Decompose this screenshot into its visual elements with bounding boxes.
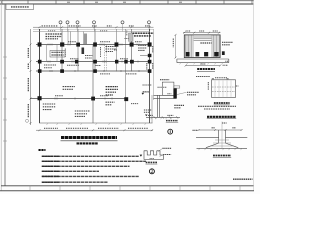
detail D top dim line — [183, 32, 221, 34]
haunch heading — [207, 116, 236, 118]
detail D right wall hatch — [212, 35, 220, 58]
left dim ticks — [30, 44, 32, 125]
title box text — [11, 6, 29, 8]
L-detail column rect — [162, 82, 174, 95]
right note text lines — [198, 106, 236, 109]
step detail level triangle — [140, 155, 143, 157]
right dim line — [153, 29, 155, 100]
L-detail caption — [166, 120, 178, 122]
bottom right sheet text — [233, 178, 253, 180]
haunch slopes — [206, 143, 219, 148]
haunch dim 600 left — [212, 127, 216, 129]
plan top edge wall — [33, 31, 150, 33]
detail D bottom black squares — [186, 52, 219, 56]
frame right faint line — [253, 0, 255, 191]
step detail callout 2 — [163, 154, 171, 156]
plan vertical grid x=93 lower — [92, 45, 94, 124]
dim texts below beam C — [100, 73, 137, 75]
L-detail bottom hatch — [151, 117, 173, 119]
keynote box text — [52, 51, 64, 53]
column right y=55.5 — [148, 54, 152, 57]
frame top inner line — [0, 3, 254, 5]
circled number 1 — [168, 129, 173, 134]
plan text below beam D center — [106, 102, 115, 105]
frame bottom inner line — [1, 185, 254, 187]
plan vertical grid x=149.5 — [149, 29, 151, 123]
L-detail bottom level text — [145, 115, 148, 117]
step detail callout 1 — [162, 147, 171, 149]
beam elevation right text — [236, 85, 239, 87]
beam labels above beam A — [68, 41, 142, 43]
top dimension ticks — [39, 26, 151, 28]
beam line A y=44.5 — [36, 44, 150, 46]
haunch dim line — [199, 129, 242, 131]
detail D top dim ticks — [183, 32, 220, 34]
axis bubble 6 — [148, 21, 151, 24]
label above beam elevation — [196, 76, 210, 78]
L-detail left verticals — [157, 95, 159, 117]
circled number 2 — [149, 169, 154, 174]
note line 1 — [42, 155, 139, 157]
top secondary dim line — [33, 29, 154, 31]
detail D caption — [197, 68, 215, 70]
beam elevation top dim text — [215, 77, 227, 79]
L-detail right text — [174, 105, 184, 107]
step detail caption — [146, 161, 157, 163]
detail D square outside right wall — [222, 51, 225, 55]
dark bar mid bay — [82, 48, 85, 55]
detail D inner text — [200, 42, 211, 44]
frame bottom outer line — [0, 190, 254, 192]
stirrup ticks on beams — [48, 44, 139, 100]
note line 3 — [42, 165, 130, 167]
secondary dim numbers — [48, 30, 108, 32]
partition top-left x=83.5 — [83, 32, 85, 45]
beam line D y=98.5 — [30, 98, 127, 100]
top strip cell marks — [67, 1, 182, 3]
L-detail level mark top — [142, 93, 145, 95]
sheet background — [0, 0, 260, 194]
haunch center vertical — [221, 122, 223, 149]
plan caption line 1 — [61, 136, 117, 139]
plan text lower-left room — [63, 87, 75, 90]
mid-left bay vertical text — [64, 49, 66, 58]
text under beam B — [96, 65, 102, 67]
bottom dim line — [36, 129, 153, 131]
haunch left text — [193, 129, 198, 131]
beam elevation stirrups — [215, 81, 231, 97]
plan vertical grid x=62 — [61, 29, 63, 72]
plan vertical grid x=68 — [67, 29, 69, 45]
axis bubble 2 — [66, 21, 69, 24]
top dimension line — [33, 26, 154, 28]
notes header — [39, 149, 46, 151]
columns row C — [38, 69, 152, 73]
haunch caption — [213, 155, 231, 157]
columns row A — [38, 42, 152, 46]
plan right small hatched room — [129, 33, 134, 41]
step detail small text under shape — [150, 158, 155, 160]
note line 4 — [42, 170, 99, 172]
frame left inner line — [4, 4, 6, 186]
detail beam elevation label above — [160, 79, 169, 81]
plan text block upper-right dark — [133, 33, 154, 36]
L-detail mid text — [167, 93, 171, 95]
plan vertical grid x=131.5 — [131, 29, 133, 72]
detail D base right tiny text — [225, 60, 229, 62]
beam elevation left dim — [207, 82, 209, 90]
detail D base hatch — [180, 63, 224, 65]
text left bay between beams B C — [44, 65, 56, 68]
title box top-left — [6, 4, 34, 9]
columns row D — [38, 96, 129, 101]
partition top-left x=70.5 — [70, 32, 72, 45]
detail D outer box — [184, 35, 220, 58]
keynote box mid-left — [50, 51, 65, 58]
detail D left rotated number — [172, 39, 174, 48]
L-detail bottom right text — [167, 114, 173, 116]
middle bay dashed verticals — [104, 45, 106, 72]
detail D top slab lines — [194, 37, 212, 41]
plan vertical grid x=116.5 — [116, 29, 118, 72]
detail D bottom dim number — [200, 63, 205, 65]
axis bubble 3 — [76, 21, 79, 24]
partition mid-left x=46.5 — [46, 45, 48, 62]
L-detail bottom line — [146, 116, 180, 118]
haunch dim 600 right — [232, 127, 236, 129]
haunch hatch below — [199, 148, 243, 150]
beam labels above beam D — [55, 95, 108, 97]
beam short right y=55.5 — [140, 55, 150, 57]
beam elevation inner dashed lines — [212, 86, 235, 88]
plan text center stacked — [106, 87, 118, 95]
plan vertical grid x=78 — [77, 29, 79, 72]
left axis bubble bottom — [26, 119, 29, 122]
L-detail horizontals — [154, 94, 177, 96]
left dim numbers (rotated) — [27, 48, 29, 118]
plan text bottom-left room — [43, 104, 55, 110]
partition mid-left x=57 — [56, 45, 58, 62]
haunch dim ticks — [198, 129, 243, 131]
bottom dim numbers row — [44, 127, 148, 129]
detail D base slab — [177, 58, 229, 60]
top dimension numbers row — [42, 25, 151, 27]
plan vertical grid x=39.5 — [39, 29, 41, 123]
plan text bottom-right room — [144, 110, 151, 112]
mid bay vertical text — [100, 47, 102, 57]
L-detail leader to right text — [177, 92, 187, 94]
detail beam elevation box — [212, 80, 236, 98]
plan text block upper-left — [46, 34, 63, 39]
detail D left dim line — [175, 35, 177, 58]
L-detail left dim marks — [143, 85, 168, 92]
frame top outer line — [0, 0, 254, 2]
right dim marks — [152, 46, 154, 69]
beam elevation top corner marks — [212, 78, 229, 80]
plan vertical grid x=124.5 lower — [125, 29, 127, 123]
detail D bottom dim line — [186, 65, 221, 67]
mid-left bay marks between beams — [67, 64, 79, 66]
plan bottom wall y=123 — [39, 122, 153, 124]
detail D left wall hatch — [186, 35, 194, 58]
frame left ticks — [3, 57, 7, 141]
text right of mid room — [114, 49, 118, 51]
haunch beam top lines — [196, 136, 219, 138]
haunch bottom line — [197, 147, 248, 149]
L-detail black bar — [173, 88, 176, 98]
haunch dim 250 — [222, 122, 227, 124]
beam line B y=61.5 — [36, 61, 150, 63]
plan caption line 2 — [77, 142, 98, 144]
frame top strip ticks — [2, 0, 252, 4]
texts near grid5 top — [126, 31, 128, 37]
step detail outline — [144, 151, 163, 160]
plan text bottom-mid room — [75, 111, 90, 116]
beam elevation caption — [214, 102, 230, 104]
note line 2 — [42, 160, 146, 162]
hatch blob top-left bay — [84, 34, 87, 45]
plan text right bay — [138, 46, 147, 51]
detail D right side texts — [222, 42, 233, 45]
beam line C y=71 — [36, 70, 150, 72]
plan vertical x=152 lower right — [151, 95, 153, 123]
bottom wall hatch ticks — [47, 123, 147, 125]
plan vertical grid x=95 — [94, 29, 96, 72]
plan caption underline — [61, 140, 118, 142]
plan right dim text — [131, 103, 139, 105]
note line 6 — [42, 181, 108, 183]
columns row B — [38, 60, 152, 64]
left dim line — [30, 29, 32, 125]
bottom dim ticks — [39, 129, 154, 131]
right bay vertical text — [146, 63, 148, 70]
text cluster left of grid4 — [85, 56, 93, 59]
axis leader lines — [61, 24, 150, 32]
note line 5 — [42, 175, 139, 177]
detail D dim numbers — [186, 30, 218, 32]
axis bubble 5 — [121, 21, 124, 24]
axis bubble 1 — [59, 21, 62, 24]
haunch inner rebar dashes — [210, 140, 234, 146]
frame bottom strip ticks — [30, 186, 240, 191]
plan text mid room — [106, 47, 117, 52]
haunch rib verticals — [218, 130, 220, 143]
beam labels above beam B — [70, 58, 128, 60]
frame left outer line — [0, 0, 2, 191]
L-detail top small box — [174, 86, 180, 88]
axis bubble 4 — [93, 21, 96, 24]
